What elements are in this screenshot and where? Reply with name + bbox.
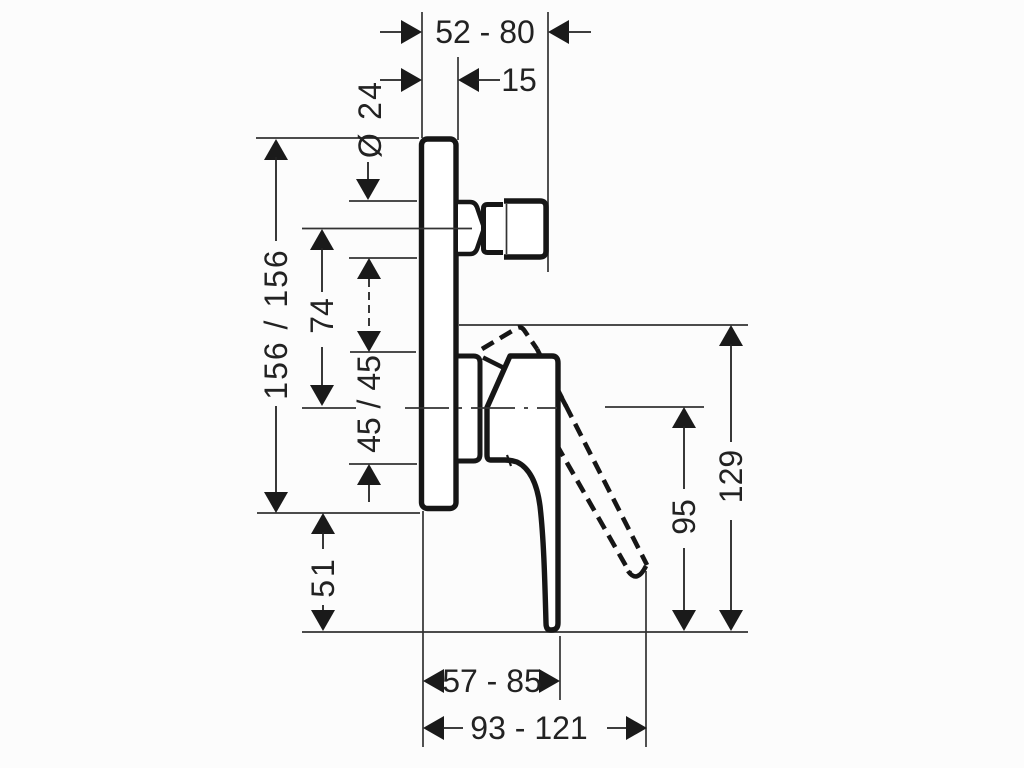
extension line y=407 right (centerline, for 95) [605,406,704,408]
extension line y=632 (lever tip / floor reference) [302,631,748,633]
dimension text 52-80 [435,14,535,50]
main centerline y=408 (dash-dot) [405,407,557,409]
dashed open-position lever, front edge (long) [537,349,647,565]
dimension 93-121 left arrow [423,716,463,740]
tick mark on handle collar [507,455,511,466]
dimension text 129 [713,450,749,503]
extension line x=646 (open lever tip) [645,571,647,747]
spindle knob body [504,201,546,257]
dimension text 57-85 [442,663,542,699]
svg-text:93 - 121: 93 - 121 [470,710,587,746]
dashed lever notch across handle edge [558,391,566,406]
svg-text:Ø 24: Ø 24 [352,80,388,158]
extension line y=464 (45/45 bottom) [349,463,417,465]
extension line y=408 left (74 bottom) [302,407,356,409]
svg-text:74: 74 [304,298,340,334]
svg-text:45 / 45: 45 / 45 [351,355,387,453]
dimension text 74 [304,298,340,334]
extension line y=201 (spindle top) [349,200,417,202]
spindle centerline y=228.5 [302,228,472,230]
dimension 51 top arrow [311,513,335,549]
extension line x=458 (plate rear face, for 15) [457,57,459,140]
dimension Ø24 upper arrow (down) [356,162,380,200]
extension line y=325 (open lever top, for 129) [459,324,748,326]
dimension 15 left arrow [380,68,422,92]
extension line x=560 (lever front, bottom) [559,636,561,700]
extension line y=138 (plate top) [256,137,419,139]
valve spindle cone at plate [458,202,484,254]
dimension 45/45 top arrow (down) [357,331,381,352]
dashed open-position lever, top edge [482,327,537,349]
extension line x=423 (plate face, bottom dims) [422,511,424,747]
lever handle, closed position [487,356,558,630]
dimension 57-85 right arrow [539,669,560,693]
svg-text:51: 51 [305,556,341,598]
dimension text Ø24 [352,80,388,158]
spindle neck ring [484,205,504,253]
svg-text:52 - 80: 52 - 80 [435,14,535,50]
handle hub wedge line [483,358,505,369]
dimension 156/156 bottom arrow [264,406,288,513]
dimension text 156/156 [258,248,294,399]
dimension text 51 [305,556,341,598]
dimension 74 bottom arrow [310,347,334,406]
extension line y=513 (plate bottom) [257,512,420,514]
dimension 156/156 top arrow [264,139,288,241]
extension line y=352 (45/45 top) [350,351,416,353]
dimension text 15 [501,62,537,98]
dimension text 95 [666,499,702,535]
svg-text:95: 95 [666,499,702,535]
spindle joint line [506,204,508,254]
dimension Ø24 lower arrow (up, dashed tail shared with 45/45) [357,258,381,331]
dimension 95 bottom arrow [672,548,696,631]
dimension text 93-121 [470,710,587,746]
svg-text:156 / 156: 156 / 156 [258,248,294,399]
dimension 129 bottom arrow [719,520,743,631]
dimension 57-85 left arrow [423,669,444,693]
dimension text 45/45 [351,355,387,453]
dimension 52-80 left arrow [380,20,422,44]
handle sleeve (escutcheon of lever) [456,356,480,461]
extension line y=258 (spindle bottom) [349,257,417,259]
dimension 74 top arrow [310,229,334,292]
extension line x=548 (knob right face) [547,12,549,272]
dashed open-position lever, rear edge (long) [546,426,630,573]
dashed lever bottom cap [628,566,646,576]
dimension 95 top arrow [672,407,696,489]
extension line x=422 (plate front face, top) [421,12,423,138]
dimension 52-80 right arrow [548,20,591,44]
dimension 93-121 right arrow [607,716,647,740]
svg-text:129: 129 [713,450,749,503]
escutcheon plate (side view) [422,139,457,509]
svg-text:15: 15 [501,62,537,98]
dimension 129 top arrow [719,325,743,442]
dimension 51 bottom arrow [311,605,335,631]
svg-text:57 - 85: 57 - 85 [442,663,542,699]
dimension 15 right arrow [458,68,500,92]
dimension 45/45 bottom arrow (up) [357,464,381,502]
